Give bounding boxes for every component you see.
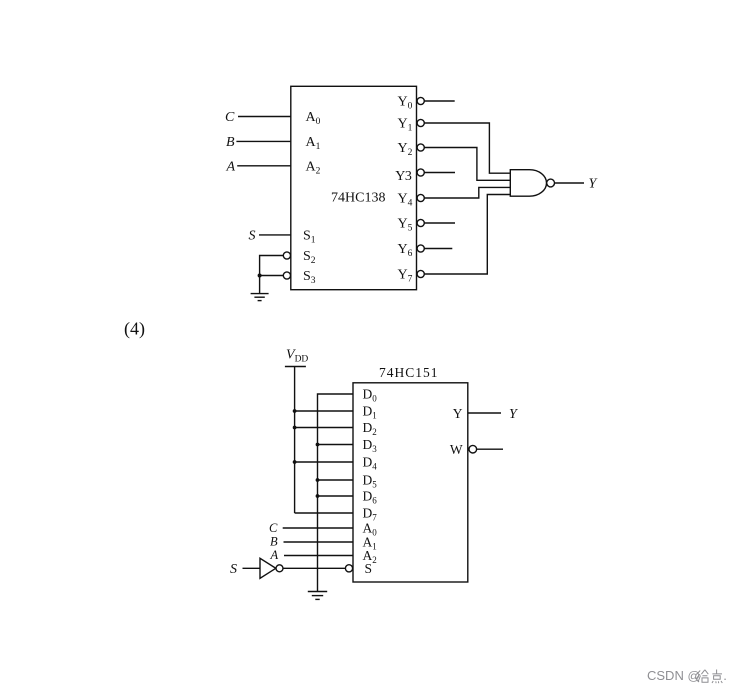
svg-text:S: S (230, 562, 237, 577)
svg-text:.: . (723, 668, 727, 683)
svg-text:S: S (365, 561, 373, 576)
svg-text:S: S (249, 229, 256, 244)
svg-text:(4): (4) (124, 318, 145, 339)
svg-text:A: A (270, 548, 279, 562)
svg-text:74HC151: 74HC151 (379, 365, 439, 380)
svg-text:Y: Y (453, 406, 463, 421)
svg-text:B: B (226, 135, 235, 150)
svg-text:Y3: Y3 (395, 169, 412, 184)
svg-text:CSDN @: CSDN @ (647, 668, 700, 683)
svg-text:C: C (225, 110, 235, 125)
svg-text:B: B (270, 535, 278, 549)
svg-text:A: A (226, 160, 236, 175)
svg-text:W: W (450, 442, 463, 457)
svg-text:74HC138: 74HC138 (331, 191, 385, 206)
svg-text:C: C (269, 521, 278, 535)
